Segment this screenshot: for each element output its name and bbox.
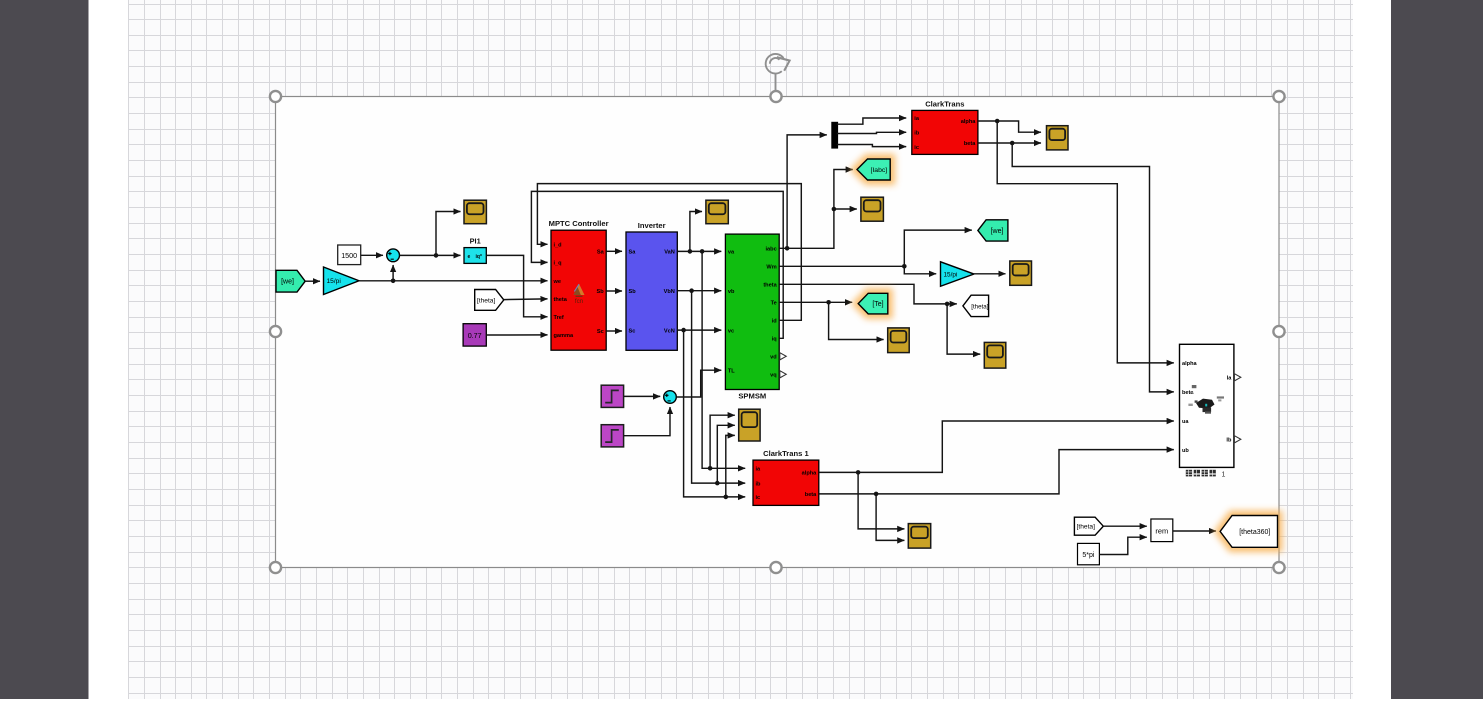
ClarkTrans port labels [914, 116, 976, 151]
svg-text:i_q: i_q [554, 261, 563, 267]
wire iq feedback to i_q [531, 191, 783, 338]
svg-text:SPMSM: SPMSM [738, 392, 766, 401]
svg-text:alpha: alpha [1182, 361, 1197, 367]
scope theta [984, 342, 1006, 368]
selection handle 1 [270, 91, 281, 102]
svg-text:theta: theta [554, 297, 568, 303]
sum junction load torque [664, 391, 677, 404]
svg-text:15/pi: 15/pi [944, 271, 958, 278]
svg-text:alpha: alpha [961, 119, 976, 125]
wire id feedback to i_d [537, 184, 801, 321]
MPTC Controller port labels [553, 243, 605, 340]
svg-text:ub: ub [1182, 448, 1189, 454]
svg-text:beta: beta [964, 141, 976, 147]
wire CT alpha to scope [978, 119, 1041, 133]
svg-text:[Te]: [Te] [872, 301, 883, 308]
svg-text:ib: ib [914, 131, 920, 137]
wire CT1 alpha tap to scope [858, 472, 904, 529]
svg-text:ic: ic [756, 495, 761, 501]
sum junction speed error [387, 249, 400, 262]
demux block [831, 122, 838, 149]
ClarkTrans1 block [753, 449, 819, 505]
wire Sb to inverter [606, 290, 622, 292]
reference model Ib unconnected output [1234, 436, 1240, 443]
svg-text:Wm: Wm [766, 265, 776, 271]
svg-text:VcN: VcN [664, 328, 675, 334]
svg-text:[we]: [we] [991, 228, 1004, 235]
svg-text:vd: vd [770, 355, 777, 361]
scope Te [888, 328, 910, 353]
wire iabc to goto Iabc [779, 170, 853, 251]
PI1 controller block [464, 237, 486, 264]
svg-text:Sa: Sa [629, 250, 637, 256]
wire gain rpm to scope [974, 273, 1006, 275]
Inverter port labels [629, 250, 675, 335]
goto tag [Iabc] [857, 159, 890, 180]
SPMSM vq unconnected output [780, 371, 786, 378]
from tag [theta] left [475, 290, 504, 311]
rem block [1151, 519, 1173, 542]
SPMSM port labels [728, 247, 778, 379]
goto tag [theta360] [1220, 516, 1277, 548]
step block Step [601, 385, 623, 407]
svg-text:ua: ua [1182, 419, 1189, 425]
wire VbN to vb [677, 288, 721, 293]
scope above SPMSM [706, 200, 728, 224]
svg-text:VbN: VbN [664, 289, 675, 295]
MPTC fcn icon [574, 284, 585, 305]
wire ib tap up to scope ch2 [717, 425, 735, 483]
svg-text:va: va [728, 250, 735, 256]
wire Wm out [779, 264, 906, 269]
svg-text:[we]: [we] [281, 279, 294, 286]
svg-text:iq: iq [772, 337, 778, 343]
wire 5*pi to rem [1099, 537, 1146, 554]
wire CT1 beta to model ub [819, 450, 1174, 497]
svg-text:[theta]: [theta] [971, 303, 988, 310]
wire sum to PI1 [400, 253, 461, 258]
wire Wm to goto we [904, 230, 972, 266]
wire branch up into sum minus [392, 265, 394, 281]
Inverter block [626, 221, 677, 350]
svg-text:PI1: PI1 [470, 237, 481, 246]
svg-text:ic: ic [914, 145, 919, 151]
svg-text:ib: ib [756, 481, 762, 487]
gain 15/pi [324, 267, 360, 295]
svg-text:TL: TL [728, 368, 735, 374]
wire Te tap to scope [829, 302, 884, 339]
svg-text:gamma: gamma [554, 333, 574, 339]
wire gain to we input MPTC [359, 279, 548, 284]
wire theta out to goto theta [779, 284, 957, 306]
wire VcN to vc [677, 328, 721, 333]
SPMSM block [725, 234, 779, 400]
wire [theta] to theta input [504, 298, 548, 301]
svg-text:MPTC Controller: MPTC Controller [549, 219, 609, 228]
wire rem to goto theta360 [1173, 530, 1216, 532]
goto tag [Te] [858, 293, 888, 314]
svg-text:Sb: Sb [597, 289, 605, 295]
wire demux out b [837, 132, 907, 133]
scope rpm [1010, 261, 1032, 285]
scope iabc [861, 197, 884, 221]
wire Sa to inverter [606, 250, 622, 252]
from tag [theta] bottom [1074, 517, 1103, 535]
rotate handle icon [766, 54, 790, 91]
svg-text:iabc: iabc [765, 247, 776, 253]
wire va tap up to scope [690, 212, 702, 252]
wire CT beta long to model beta [1012, 143, 1174, 392]
reference model block [1180, 344, 1234, 467]
step block Step1 [601, 425, 623, 447]
selection handle 2 [770, 91, 781, 102]
svg-text:vq: vq [770, 373, 777, 379]
SPMSM vd unconnected output [780, 353, 786, 360]
reference model Ia unconnected output [1234, 374, 1240, 381]
wire CT alpha long to model alpha [997, 121, 1174, 363]
reference model label [1186, 470, 1226, 479]
svg-text:Inverter: Inverter [638, 221, 666, 230]
left dark sidebar [0, 0, 89, 699]
svg-text:Te: Te [771, 301, 777, 307]
constant 0.77 [463, 324, 486, 346]
wire theta to rem [1103, 525, 1147, 527]
wire [we] to gain 15/pi [305, 280, 320, 282]
from tag [we] [276, 270, 305, 292]
wire ic tap up to scope ch3 [726, 435, 735, 497]
wire CT beta to scope [978, 141, 1041, 146]
wire va tap down to ClarkTrans1 ia [702, 251, 745, 470]
wire demux out c [837, 145, 907, 147]
svg-text:we: we [553, 279, 561, 285]
right dark sidebar [1391, 0, 1483, 699]
selection handle 5 [1273, 326, 1284, 337]
svg-text:Sc: Sc [597, 329, 604, 335]
svg-text:vb: vb [728, 289, 735, 295]
wire tap to scope iabc [834, 208, 857, 210]
svg-text:alpha: alpha [802, 471, 817, 477]
scope alphabeta currents [1047, 126, 1069, 150]
reference model port labels [1182, 361, 1232, 454]
wire demux out a [837, 118, 907, 124]
goto tag [we] [978, 220, 1008, 241]
svg-text:Sb: Sb [629, 289, 637, 295]
wire Te out to goto Te [779, 300, 852, 305]
ClarkTrans1 port labels [756, 467, 818, 502]
wire CT1 beta tap to scope [876, 494, 904, 541]
svg-text:Tref: Tref [554, 315, 564, 321]
svg-text:Sa: Sa [597, 249, 605, 255]
wire vb tap down to ClarkTrans1 ib [692, 291, 746, 486]
selection handle 6 [270, 562, 281, 573]
selection handle 3 [1273, 91, 1284, 102]
svg-text:fcn: fcn [575, 298, 584, 305]
svg-text:VaN: VaN [664, 250, 675, 256]
svg-text:[theta360]: [theta360] [1239, 529, 1270, 536]
svg-text:ClarkTrans 1: ClarkTrans 1 [763, 449, 809, 458]
scope alphabeta voltages [908, 524, 930, 549]
wire iabc up to demux [787, 135, 827, 248]
wire sum2 to TL input [676, 370, 721, 397]
selection handle 8 [1273, 562, 1284, 573]
wire Wm to gain rpm [904, 266, 936, 274]
wire PI1 to Tref input [486, 255, 547, 316]
wire branch to scope Speed [436, 212, 461, 256]
svg-text:e: e [468, 254, 471, 260]
scope speed error [464, 200, 486, 224]
svg-text:id: id [772, 319, 778, 325]
wire VaN to va [677, 249, 721, 254]
svg-text:theta: theta [763, 283, 777, 289]
selection area white rectangle [276, 97, 1280, 568]
svg-text:1500: 1500 [341, 251, 357, 260]
svg-text:iq*: iq* [476, 254, 482, 260]
svg-text:ClarkTrans: ClarkTrans [925, 99, 964, 108]
svg-text:15/pi: 15/pi [327, 278, 342, 285]
svg-text:[Iabc]: [Iabc] [871, 167, 888, 174]
svg-text:5*pi: 5*pi [1082, 552, 1095, 559]
goto tag [theta] [963, 295, 989, 316]
gain 15/pi rpm [941, 262, 975, 287]
constant 5*pi [1078, 543, 1100, 564]
svg-text:vc: vc [728, 328, 734, 334]
svg-text:0.77: 0.77 [468, 331, 482, 340]
svg-text:Ib: Ib [1226, 438, 1232, 444]
svg-text:rem: rem [1155, 526, 1168, 535]
reference model interior graphic [1188, 385, 1224, 414]
wire step to sum2 [624, 395, 660, 397]
svg-text:i_d: i_d [554, 243, 563, 249]
constant 1500 [338, 245, 361, 265]
selection handle 7 [770, 562, 781, 573]
svg-text:1: 1 [1222, 471, 1226, 478]
selection handle 4 [270, 326, 281, 337]
wire theta tap to scope [947, 304, 980, 354]
wire 0.77 to gamma input [486, 334, 547, 336]
scope three phase [739, 409, 760, 441]
wire vc tap down to ClarkTrans1 ic [684, 330, 746, 499]
svg-text:[theta]: [theta] [1077, 524, 1095, 531]
svg-text:beta: beta [805, 492, 817, 498]
wire step1 to sum2 [624, 407, 670, 436]
wire 1500 to sum [361, 254, 383, 256]
MPTC Controller block [549, 219, 609, 350]
svg-text:Sc: Sc [629, 328, 636, 334]
wire ia tap up to scope ch1 [710, 415, 735, 468]
svg-text:[theta]: [theta] [477, 297, 495, 304]
wire CT1 alpha to model ua [819, 421, 1174, 475]
ClarkTrans block [912, 99, 978, 154]
wire Sc to inverter [606, 330, 622, 332]
